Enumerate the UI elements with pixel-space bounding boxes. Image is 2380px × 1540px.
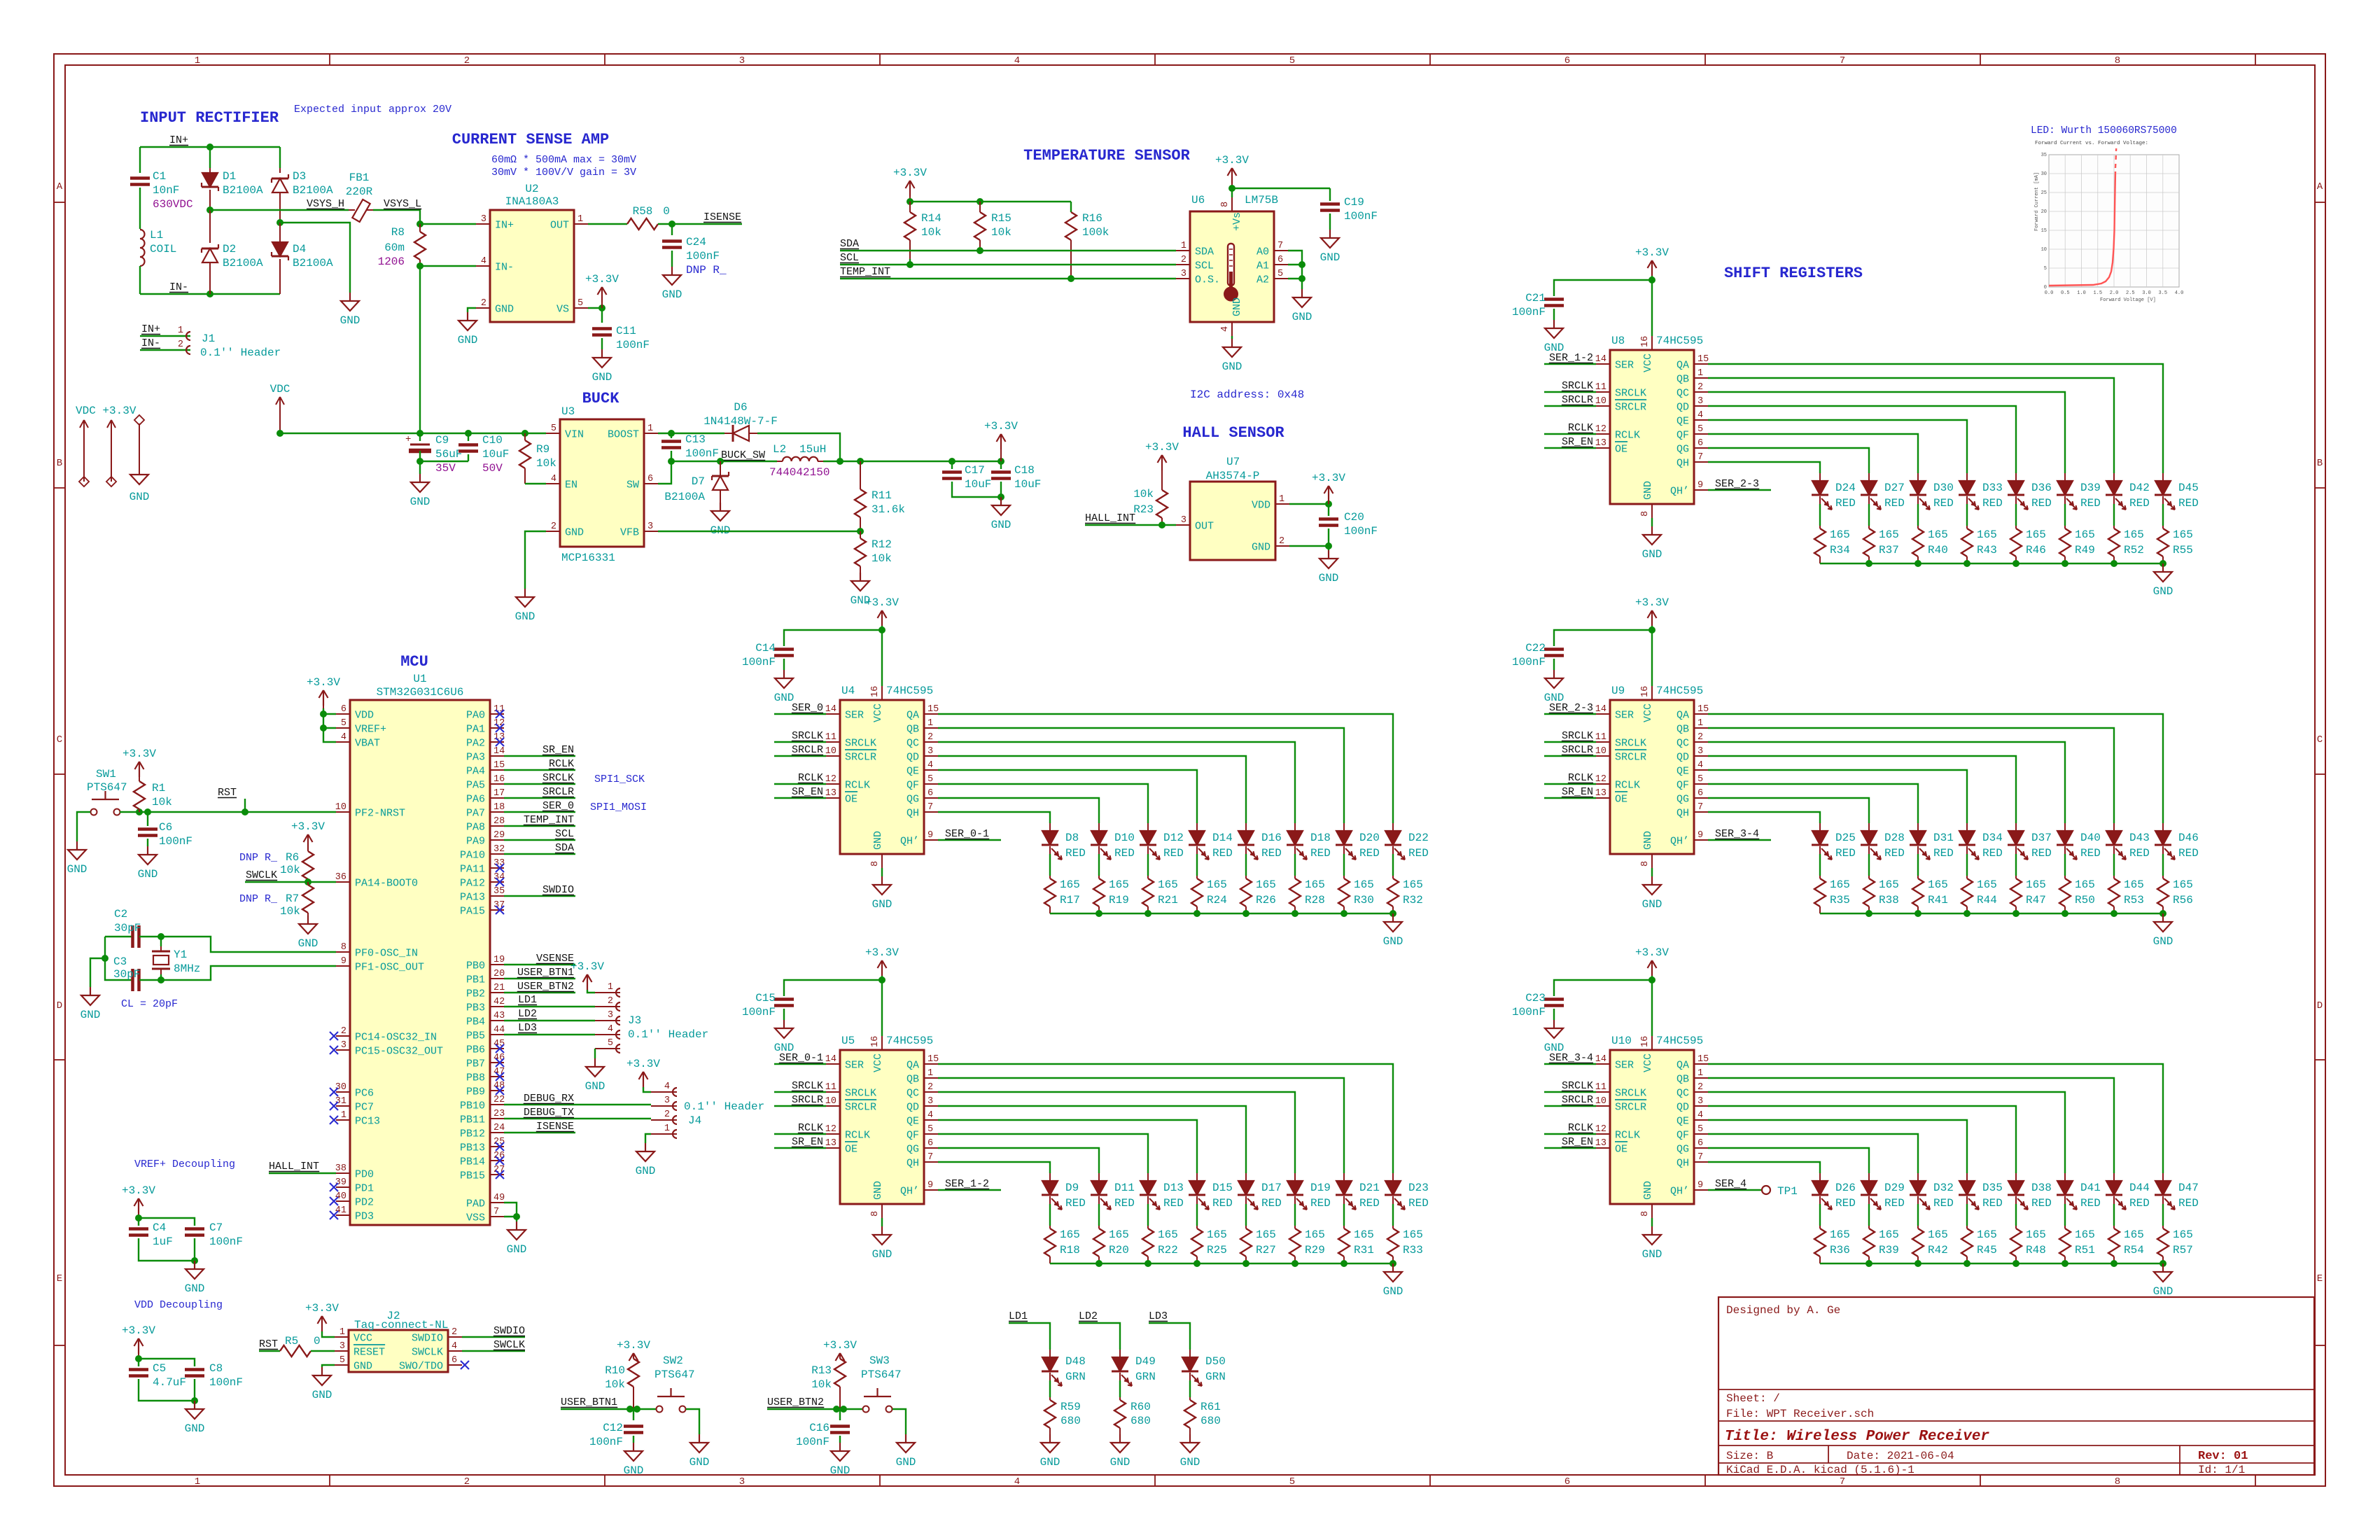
svg-text:C19: C19 — [1344, 196, 1364, 209]
svg-text:RESET: RESET — [353, 1347, 385, 1359]
U4 pin 14 SER — [826, 713, 840, 715]
svg-text:RCLK: RCLK — [1615, 1130, 1640, 1142]
svg-text:10k: 10k — [811, 1378, 832, 1391]
wire SW to BUCK_SW — [658, 461, 671, 484]
svg-text:D47: D47 — [2178, 1182, 2199, 1194]
svg-text:10k: 10k — [152, 796, 172, 808]
svg-text:6: 6 — [1277, 255, 1283, 265]
ground at J3 pin5 — [594, 1049, 596, 1058]
svg-text:40: 40 — [335, 1191, 346, 1202]
U8 pin 9 QH’ — [1694, 489, 1708, 491]
svg-text:RED: RED — [1933, 847, 1954, 860]
svg-text:R46: R46 — [2026, 544, 2046, 556]
svg-text:D3: D3 — [293, 170, 306, 183]
svg-text:+3.3V: +3.3V — [1145, 441, 1179, 454]
U9 pin 6 QG — [1694, 797, 1708, 799]
svg-text:D9: D9 — [1065, 1182, 1079, 1194]
svg-text:GRN: GRN — [1065, 1371, 1086, 1383]
svg-text:BUCK: BUCK — [582, 390, 620, 407]
svg-text:10k: 10k — [280, 864, 300, 876]
svg-text:R59: R59 — [1060, 1401, 1081, 1413]
ground under C8 — [194, 1401, 195, 1409]
svg-text:RED: RED — [1310, 1197, 1331, 1210]
svg-text:SRCLK: SRCLK — [845, 738, 876, 750]
svg-text:SDA: SDA — [555, 842, 574, 854]
svg-text:6: 6 — [1697, 788, 1703, 799]
svg-text:2: 2 — [664, 1109, 670, 1120]
svg-text:2: 2 — [551, 521, 556, 532]
svg-text:R36: R36 — [1830, 1244, 1850, 1256]
wire SER_4 to TP1 — [1708, 1189, 1763, 1191]
wire SRCLK — [504, 783, 575, 785]
svg-text:2: 2 — [1697, 732, 1703, 743]
svg-text:56uF: 56uF — [435, 448, 462, 461]
svg-text:SR_EN: SR_EN — [792, 1136, 823, 1148]
svg-text:5: 5 — [927, 774, 933, 785]
svg-text:1N4148W-7-F: 1N4148W-7-F — [703, 415, 778, 428]
node LED bus junction — [2110, 1260, 2117, 1267]
svg-text:35: 35 — [493, 886, 505, 897]
svg-text:INA180A3: INA180A3 — [505, 195, 559, 208]
ground under R7 — [307, 916, 309, 924]
svg-text:16: 16 — [870, 686, 881, 697]
ground under U6 — [1231, 339, 1233, 347]
svg-text:QG: QG — [906, 794, 919, 806]
svg-text:SR_EN: SR_EN — [1562, 436, 1593, 448]
crystal Y1 8MHz — [160, 937, 162, 946]
svg-text:100nF: 100nF — [796, 1436, 829, 1448]
wire U9 QE to LED — [1708, 770, 1967, 823]
svg-text:1: 1 — [608, 982, 613, 993]
U1 pin 25 PB13 — [490, 1146, 504, 1147]
svg-text:30mV * 100V/V gain = 3V: 30mV * 100V/V gain = 3V — [491, 167, 636, 178]
svg-text:35: 35 — [2041, 153, 2047, 158]
svg-text:D29: D29 — [1884, 1182, 1905, 1194]
svg-text:+3.3V: +3.3V — [122, 1324, 155, 1337]
U1 pin 7 VSS — [490, 1216, 504, 1217]
svg-text:8: 8 — [2115, 55, 2120, 66]
svg-text:R30: R30 — [1354, 894, 1374, 906]
svg-text:QC: QC — [906, 738, 919, 750]
svg-text:QH’: QH’ — [1670, 486, 1689, 498]
svg-text:QC: QC — [1676, 1088, 1689, 1100]
node LED bus junction — [1963, 910, 1970, 917]
svg-text:1.5: 1.5 — [2093, 290, 2102, 296]
svg-text:4: 4 — [1220, 326, 1231, 332]
ground at LED bus of U9 — [2162, 913, 2164, 922]
svg-text:RED: RED — [1212, 1197, 1233, 1210]
svg-text:OE: OE — [845, 1144, 857, 1156]
wire U5 QE to LED — [938, 1120, 1197, 1173]
svg-text:3: 3 — [739, 1476, 745, 1487]
U9 pin 5 QF — [1694, 783, 1708, 785]
ground at rectifier mid node — [349, 293, 351, 301]
svg-text:SHIFT REGISTERS: SHIFT REGISTERS — [1724, 265, 1863, 282]
svg-text:SER_3-4: SER_3-4 — [1549, 1052, 1593, 1064]
resistor R13 — [834, 1359, 846, 1387]
svg-text:TEMP_INT: TEMP_INT — [524, 814, 574, 826]
svg-text:2: 2 — [1697, 1082, 1703, 1093]
wire U5 QA to LED — [938, 1064, 1393, 1173]
svg-text:LD1: LD1 — [1009, 1310, 1028, 1322]
svg-text:SR_EN: SR_EN — [792, 786, 823, 798]
svg-text:VREF+ Decoupling: VREF+ Decoupling — [134, 1158, 235, 1170]
resistor R35 — [1819, 876, 1821, 878]
led D8 — [1049, 823, 1051, 831]
svg-text:FB1: FB1 — [349, 171, 370, 184]
svg-text:680: 680 — [1200, 1415, 1221, 1427]
svg-text:OUT: OUT — [550, 220, 569, 232]
U10 pin 9 QH’ — [1694, 1189, 1708, 1191]
wire SR_EN to U9 — [1544, 797, 1596, 799]
svg-text:PB3: PB3 — [466, 1002, 485, 1014]
svg-text:SRCLK: SRCLK — [845, 1088, 876, 1100]
svg-text:D15: D15 — [1212, 1182, 1233, 1194]
svg-text:+3.3V: +3.3V — [585, 273, 619, 286]
U10 pin 3 QD — [1694, 1105, 1708, 1107]
svg-text:3: 3 — [1181, 515, 1186, 526]
U9 pin 13 OE — [1596, 797, 1610, 799]
svg-text:Title: Wireless Power Receiver: Title: Wireless Power Receiver — [1725, 1429, 1989, 1445]
wire USER_BTN1 — [561, 1408, 656, 1410]
ground under U4 — [881, 876, 883, 885]
U1 pin 36 PA14-BOOT0 — [336, 881, 350, 883]
svg-text:PD1: PD1 — [355, 1183, 374, 1195]
U1 pin 16 PA5 — [490, 783, 504, 785]
svg-text:165: 165 — [1060, 1228, 1080, 1241]
wire SCL — [504, 839, 575, 841]
svg-text:QB: QB — [1676, 724, 1689, 736]
svg-text:VSS: VSS — [466, 1212, 485, 1224]
svg-text:GND: GND — [138, 868, 158, 881]
wire RCLK to U10 — [1544, 1133, 1596, 1135]
U5 pin 1 QB — [924, 1077, 938, 1079]
svg-text:0: 0 — [663, 205, 670, 218]
svg-text:VCC: VCC — [872, 1053, 884, 1072]
U1 pin 39 PD1 — [336, 1186, 350, 1188]
svg-text:60m: 60m — [384, 241, 405, 254]
resistor R28 — [1294, 876, 1296, 878]
svg-text:220R: 220R — [346, 185, 373, 198]
svg-text:13: 13 — [825, 1138, 836, 1149]
svg-text:+3.3V: +3.3V — [1312, 472, 1345, 484]
node LED bus junction — [1095, 1260, 1102, 1267]
wire U2 OUT to R58 — [588, 223, 627, 225]
wire SCL — [840, 264, 1176, 265]
svg-text:RED: RED — [2129, 497, 2150, 510]
led D19 — [1294, 1173, 1296, 1181]
node LED bus junction — [1963, 560, 1970, 567]
svg-text:7: 7 — [927, 802, 933, 813]
svg-text:R32: R32 — [1403, 894, 1423, 906]
resistor R16 — [1070, 202, 1072, 212]
svg-text:16: 16 — [493, 774, 505, 785]
svg-text:8: 8 — [1640, 511, 1651, 517]
svg-text:D43: D43 — [2129, 832, 2150, 844]
svg-text:PF0-OSC_IN: PF0-OSC_IN — [355, 948, 418, 960]
node LED bus junction — [2110, 560, 2117, 567]
svg-text:TP1: TP1 — [1777, 1185, 1798, 1198]
wire NRST — [120, 811, 336, 813]
svg-text:CL = 20pF: CL = 20pF — [121, 998, 178, 1010]
power +3.3V pullups — [909, 181, 911, 196]
svg-text:SER: SER — [845, 1060, 864, 1072]
svg-text:C16: C16 — [809, 1422, 829, 1434]
svg-text:4: 4 — [1697, 410, 1703, 421]
U5 pin 12 RCLK — [826, 1133, 840, 1135]
svg-text:1.0: 1.0 — [2077, 290, 2086, 296]
svg-text:R8: R8 — [391, 226, 405, 239]
svg-text:24: 24 — [493, 1123, 505, 1133]
wire U8 QF to LED — [1708, 434, 1918, 473]
svg-text:File: WPT Receiver.sch: File: WPT Receiver.sch — [1726, 1408, 1874, 1420]
svg-text:PTS647: PTS647 — [87, 781, 127, 794]
wire U4 QH to LED — [938, 812, 1050, 823]
wire U7 GND — [1289, 545, 1329, 547]
svg-text:74HC595: 74HC595 — [1656, 1035, 1703, 1047]
svg-text:U5: U5 — [841, 1035, 855, 1047]
svg-text:RED: RED — [1065, 847, 1086, 860]
svg-text:D20: D20 — [1359, 832, 1380, 844]
svg-text:D41: D41 — [2080, 1182, 2101, 1194]
svg-text:R5: R5 — [285, 1335, 298, 1347]
svg-text:R37: R37 — [1879, 544, 1899, 556]
svg-text:RCLK: RCLK — [798, 772, 823, 784]
svg-text:100nF: 100nF — [589, 1436, 623, 1448]
svg-text:SCL: SCL — [840, 252, 859, 264]
capacitor C21 — [1554, 280, 1652, 296]
resistor R26 — [1245, 876, 1247, 878]
svg-text:HALL_INT: HALL_INT — [1085, 512, 1135, 524]
svg-text:165: 165 — [1158, 1228, 1178, 1241]
svg-text:B2100A: B2100A — [293, 257, 333, 269]
node LED bus junction — [1193, 910, 1200, 917]
svg-text:C17: C17 — [965, 464, 985, 477]
svg-text:SRCLK: SRCLK — [1615, 1088, 1646, 1100]
svg-text:31: 31 — [335, 1096, 346, 1107]
svg-text:31.6k: 31.6k — [871, 503, 905, 516]
svg-text:A: A — [57, 181, 63, 192]
svg-text:GND: GND — [1231, 297, 1243, 316]
svg-text:RCLK: RCLK — [1568, 422, 1593, 434]
svg-text:10k: 10k — [991, 226, 1011, 239]
svg-text:STM32G031C6U6: STM32G031C6U6 — [377, 686, 464, 699]
svg-text:L2: L2 — [773, 443, 786, 456]
svg-text:D14: D14 — [1212, 832, 1233, 844]
U4 pin 6 QG — [924, 797, 938, 799]
node LED bus junction — [1914, 1260, 1921, 1267]
svg-text:74HC595: 74HC595 — [1656, 335, 1703, 347]
svg-text:8: 8 — [1640, 1211, 1651, 1217]
wire U8 QE to LED — [1708, 420, 1967, 473]
svg-text:0.1'' Header: 0.1'' Header — [684, 1100, 764, 1113]
svg-text:9: 9 — [927, 830, 933, 841]
U1 pin 33 PA11 — [490, 867, 504, 869]
svg-text:1206: 1206 — [378, 255, 405, 268]
svg-text:630VDC: 630VDC — [153, 198, 193, 211]
U1 pin 30 PC6 — [336, 1091, 350, 1093]
svg-text:RED: RED — [2178, 497, 2199, 510]
svg-text:AH3574-P: AH3574-P — [1206, 470, 1260, 482]
svg-text:3: 3 — [608, 1010, 613, 1021]
svg-text:OE: OE — [1615, 794, 1627, 806]
ground under C15 — [783, 1020, 785, 1028]
svg-text:25: 25 — [2041, 190, 2047, 196]
node IN+ junction — [206, 143, 213, 150]
led D12 — [1147, 823, 1149, 831]
wire LD3 — [1149, 1323, 1190, 1350]
svg-text:2.5: 2.5 — [2126, 290, 2135, 296]
svg-text:3: 3 — [1697, 746, 1703, 757]
svg-text:SRCLK: SRCLK — [792, 1080, 823, 1092]
svg-text:EN: EN — [565, 479, 577, 491]
svg-text:1: 1 — [1279, 494, 1284, 505]
node SCL-R14 junction — [906, 261, 913, 268]
svg-text:BOOST: BOOST — [608, 429, 639, 441]
svg-text:GND: GND — [410, 496, 430, 508]
U8 pin 6 QG — [1694, 447, 1708, 449]
wire LED ground bus of U8 — [1820, 563, 2163, 564]
svg-text:QH: QH — [906, 808, 919, 820]
node LED bus junction — [2159, 560, 2166, 567]
svg-text:PD2: PD2 — [355, 1197, 374, 1209]
svg-text:PB14: PB14 — [460, 1156, 485, 1168]
svg-text:PB5: PB5 — [466, 1030, 485, 1042]
svg-text:165: 165 — [1928, 528, 1948, 541]
svg-text:2: 2 — [481, 298, 486, 309]
svg-text:5: 5 — [341, 718, 346, 729]
svg-text:5: 5 — [927, 1124, 933, 1135]
svg-text:QF: QF — [906, 1130, 919, 1142]
svg-text:21: 21 — [493, 983, 505, 993]
node LED bus junction — [2159, 910, 2166, 917]
svg-text:+Vs: +Vs — [1231, 212, 1243, 231]
U4 pin 10 SRCLR — [826, 755, 840, 757]
svg-text:D50: D50 — [1205, 1355, 1226, 1368]
svg-text:R35: R35 — [1830, 894, 1850, 906]
svg-text:+3.3V: +3.3V — [122, 748, 156, 760]
net label HALL_INT at PD0 — [269, 1172, 336, 1174]
wire SRCLK to U9 — [1544, 741, 1596, 743]
U1 pin 45 PB6 — [490, 1048, 504, 1049]
resistor R10 — [628, 1359, 639, 1387]
svg-text:9: 9 — [927, 1180, 933, 1191]
svg-text:13: 13 — [1595, 1138, 1606, 1149]
svg-text:D42: D42 — [2129, 482, 2150, 494]
svg-text:RED: RED — [1884, 497, 1905, 510]
svg-text:Designed by A. Ge: Designed by A. Ge — [1726, 1304, 1840, 1317]
wire USER_BTN2 — [767, 1408, 862, 1410]
svg-text:J1: J1 — [202, 332, 215, 345]
wire U4 QD to LED — [938, 756, 1246, 823]
svg-text:R17: R17 — [1060, 894, 1080, 906]
svg-text:+3.3V: +3.3V — [291, 820, 325, 833]
led D39 — [2064, 473, 2066, 481]
svg-text:3: 3 — [927, 1096, 933, 1107]
svg-text:+3.3V: +3.3V — [1635, 246, 1669, 259]
U9 pin 11 SRCLK — [1596, 741, 1610, 743]
svg-text:SRCLR: SRCLR — [1615, 402, 1646, 414]
svg-text:QA: QA — [1676, 360, 1689, 372]
node Y1 bottom junction — [157, 976, 164, 983]
resistor R11 — [860, 461, 861, 489]
svg-text:165: 165 — [1207, 1228, 1227, 1241]
svg-text:PA15: PA15 — [460, 906, 485, 918]
wire A0-A1-A2 to ground — [1288, 251, 1302, 289]
U4 VCC pin16 wire — [881, 686, 883, 700]
resistor R24 — [1196, 876, 1198, 878]
svg-text:165: 165 — [1256, 878, 1276, 891]
U8 pin 15 QA — [1694, 363, 1708, 365]
U5 pin 5 QF — [924, 1133, 938, 1135]
svg-text:IN+: IN+ — [141, 323, 160, 335]
U1 pin 4 VBAT — [336, 741, 350, 743]
svg-text:1: 1 — [1181, 241, 1186, 251]
led D38 — [2015, 1173, 2017, 1181]
svg-text:SER_0: SER_0 — [542, 800, 574, 812]
svg-text:PF1-OSC_OUT: PF1-OSC_OUT — [355, 962, 424, 974]
svg-text:QF: QF — [1676, 1130, 1689, 1142]
svg-text:D40: D40 — [2080, 832, 2101, 844]
svg-text:14: 14 — [493, 746, 505, 757]
svg-text:+3.3V: +3.3V — [626, 1058, 660, 1070]
led D31 — [1917, 823, 1919, 831]
svg-text:PTS647: PTS647 — [861, 1368, 902, 1381]
diode D7 B2100A — [720, 461, 721, 476]
svg-text:RED: RED — [2178, 847, 2199, 860]
svg-text:30pF: 30pF — [113, 968, 140, 981]
svg-text:2: 2 — [451, 1327, 457, 1338]
svg-text:+3.3V: +3.3V — [893, 167, 927, 179]
U5 pin 11 SRCLK — [826, 1091, 840, 1093]
led D16 — [1245, 823, 1247, 831]
power +3.3V at J4 pin4 — [643, 1072, 644, 1087]
svg-text:6: 6 — [927, 788, 933, 799]
U1 pin 13 PA2 — [490, 741, 504, 743]
svg-text:41: 41 — [335, 1205, 346, 1216]
svg-text:165: 165 — [2026, 528, 2046, 541]
svg-text:QF: QF — [1676, 780, 1689, 792]
svg-text:GND: GND — [1320, 251, 1340, 264]
svg-text:R33: R33 — [1403, 1244, 1423, 1256]
svg-text:10k: 10k — [280, 905, 300, 918]
wire SRCLR to U10 — [1544, 1105, 1596, 1107]
svg-text:OE: OE — [1615, 444, 1627, 456]
svg-text:42: 42 — [493, 997, 505, 1007]
svg-text:2: 2 — [1181, 255, 1186, 265]
resistor R53 — [2113, 876, 2115, 878]
svg-text:74HC595: 74HC595 — [886, 685, 933, 697]
svg-text:R52: R52 — [2124, 544, 2144, 556]
svg-text:U1: U1 — [413, 673, 426, 685]
svg-text:R13: R13 — [811, 1364, 832, 1377]
svg-text:DNP R_: DNP R_ — [239, 893, 278, 905]
svg-text:PB13: PB13 — [460, 1142, 485, 1154]
svg-text:D13: D13 — [1163, 1182, 1184, 1194]
power +3.3V at U4 — [881, 610, 883, 626]
U1 pin 48 PB9 — [490, 1090, 504, 1091]
svg-text:SRCLR: SRCLR — [1562, 394, 1593, 406]
capacitor C13 — [671, 433, 672, 438]
svg-text:SRCLR: SRCLR — [1615, 1102, 1646, 1114]
svg-text:GND: GND — [2153, 935, 2173, 948]
svg-text:RCLK: RCLK — [845, 780, 870, 792]
svg-text:SR_EN: SR_EN — [542, 744, 574, 756]
node USER_BTN1 junctions — [626, 1406, 633, 1413]
svg-text:2: 2 — [178, 339, 183, 350]
svg-text:D45: D45 — [2178, 482, 2199, 494]
svg-text:D31: D31 — [1933, 832, 1954, 844]
